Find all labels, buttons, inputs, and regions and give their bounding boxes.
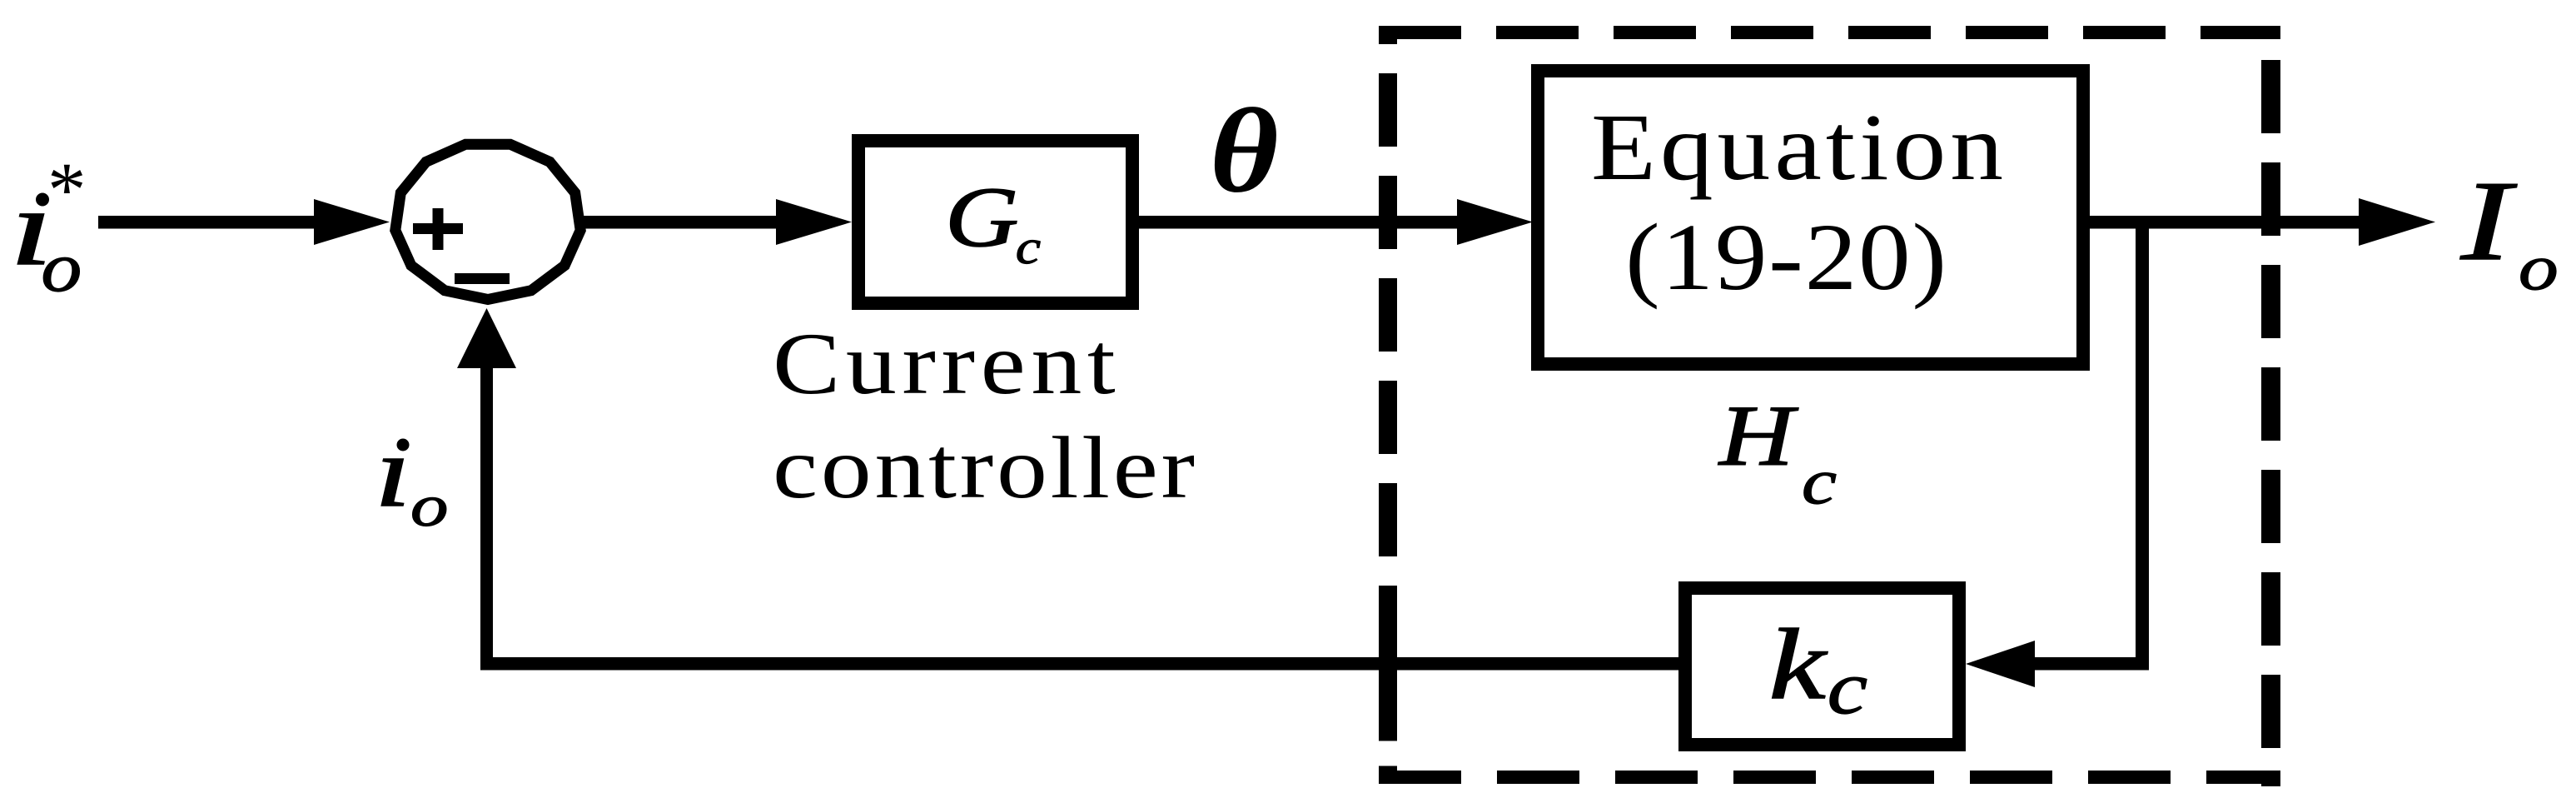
wire summing junction to Gc [583,216,783,229]
label G_c [945,170,1041,274]
svg-text:k: k [1769,608,1828,720]
label H_c [1718,387,1837,517]
wire Gc to Equation block [1139,216,1460,229]
summing junction circle [395,144,580,299]
svg-text:G: G [945,170,1019,265]
svg-text:Equation: Equation [1591,95,2003,200]
svg-text:Current: Current [773,314,1116,412]
svg-text:o: o [41,227,82,307]
arrowhead into Gc [776,199,852,245]
block Gc box [858,141,1132,303]
svg-text:I: I [2460,157,2518,284]
svg-text:H: H [1718,387,1798,484]
svg-text:c: c [1016,221,1041,274]
svg-text:(19-20): (19-20) [1625,204,1947,310]
label Current controller [773,314,1195,516]
wire input to summing junction [98,216,316,229]
wire feedback takeoff vertical [2136,222,2149,664]
arrowhead into Equation block [1457,199,1533,245]
dashed subsystem box top edge [1379,26,2280,39]
dashed subsystem box left edge [1379,26,1397,657]
node label i_o* (reference input) [10,147,87,307]
block kc box [1685,588,1959,745]
label k_c [1769,608,1868,730]
label Equation (19-20) [1591,95,2003,310]
wire feedback riser vertical [480,368,493,664]
svg-text:c: c [1802,446,1837,517]
svg-text:ı: ı [375,415,411,527]
svg-text:controller: controller [773,418,1195,516]
svg-text:c: c [1828,646,1867,730]
svg-text:θ: θ [1210,83,1279,217]
arrowhead into summing junction [314,199,390,245]
minus sign [455,273,510,284]
wire feedback horizontal into kc [2035,657,2149,671]
block Equation (19-20) box [1538,71,2083,364]
wire Equation block to output [2090,216,2365,229]
arrowhead to output [2359,198,2435,246]
plus sign [413,208,463,250]
dashed subsystem box bottom edge [1379,771,2280,784]
arrowhead into summing junction from below [457,308,516,368]
node label i_o (feedback) [375,415,448,538]
wire feedback long horizontal [480,657,1678,671]
dashed subsystem box right edge [2261,60,2280,786]
arrowhead into kc [1966,641,2035,687]
node label I_o (output) [2460,157,2559,303]
svg-text:o: o [410,472,448,538]
svg-text:o: o [2519,232,2559,303]
svg-text:*: * [47,147,87,233]
